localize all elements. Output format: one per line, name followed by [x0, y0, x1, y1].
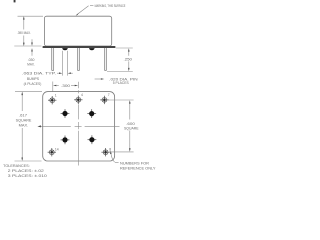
svg-text:.063 DIA. TYP.: .063 DIA. TYP. — [22, 71, 56, 76]
svg-text:.390 MAX.: .390 MAX. — [17, 30, 31, 35]
pin 1 (front view) — [52, 48, 54, 71]
marking leader — [76, 6, 88, 15]
dim .250 line — [128, 51, 130, 56]
svg-text:3 PLACES: ±.010: 3 PLACES: ±.010 — [8, 173, 48, 178]
bump dome right (front view) — [89, 48, 95, 50]
dim .020 arrow — [95, 78, 102, 80]
dim .250 extension bottom — [107, 71, 133, 73]
leader for numbers note — [110, 151, 112, 154]
pin 4 (front view) — [105, 48, 107, 71]
pin 1 target (bottom view) — [48, 96, 56, 104]
svg-text:MAX.: MAX. — [19, 122, 29, 127]
dim .600 extension bottom — [109, 151, 134, 153]
bump 2 (bottom view) — [87, 109, 96, 118]
svg-text:1: 1 — [55, 94, 57, 98]
dim .390 MAX extension bottom — [14, 45, 41, 47]
dim .617 line — [21, 92, 23, 111]
dim .390 MAX extension top — [18, 15, 44, 17]
dim .250 extension top — [116, 47, 133, 49]
horizontal centerline — [37, 125, 41, 127]
svg-text:MAX.: MAX. — [27, 61, 34, 66]
svg-text:MARKING, THIS SURFACE: MARKING, THIS SURFACE — [95, 4, 126, 8]
pin 3 (front view) — [78, 48, 80, 71]
dim .390 MAX line — [23, 17, 25, 30]
dim .063 right arrow — [68, 72, 71, 74]
bump 3 (bottom view) — [61, 136, 70, 145]
svg-text:7: 7 — [108, 93, 110, 97]
base plate band (front view) — [43, 46, 116, 48]
svg-text:8: 8 — [109, 147, 111, 151]
svg-text:REFERENCE ONLY: REFERENCE ONLY — [120, 166, 156, 170]
dim .600 line — [129, 103, 131, 120]
pin 4 target (bottom view) — [74, 96, 82, 104]
dash before numbers note — [115, 162, 119, 164]
pin 14 target (bottom view) — [48, 148, 56, 156]
svg-text:NUMBERS FOR: NUMBERS FOR — [120, 161, 149, 165]
svg-text:.300: .300 — [61, 83, 71, 88]
dim .030 MAX arrows — [31, 39, 33, 43]
pin 8 target (bottom view) — [101, 148, 109, 156]
svg-text:14: 14 — [55, 147, 59, 151]
svg-text:.250: .250 — [124, 56, 133, 61]
dim .300 extension lines — [52, 82, 54, 97]
svg-text:5 PLACES: 5 PLACES — [113, 80, 129, 85]
bump 1 (bottom view) — [61, 109, 70, 118]
bottom view square outline — [43, 92, 115, 161]
dim .617 extension top — [15, 91, 42, 93]
dim .617 extension bottom — [15, 160, 42, 162]
dim .600 extension top — [109, 99, 134, 101]
dim .063 left arrow — [57, 72, 59, 74]
bump 4 (bottom view) — [88, 135, 97, 144]
vertical centerline — [77, 90, 79, 93]
svg-text:(4 PLACES): (4 PLACES) — [24, 81, 42, 86]
dim .063 extension lines — [62, 51, 64, 76]
marking leader dash — [90, 5, 93, 7]
dim .300 line with arrows — [53, 85, 56, 87]
bump dome left (front view) — [62, 48, 68, 50]
body outline (front view) — [44, 16, 111, 46]
svg-text:4: 4 — [81, 93, 83, 97]
svg-text:SQUARE: SQUARE — [124, 126, 139, 131]
pin 7 target (bottom view) — [100, 96, 108, 104]
stray mark top-left — [14, 0, 16, 2]
